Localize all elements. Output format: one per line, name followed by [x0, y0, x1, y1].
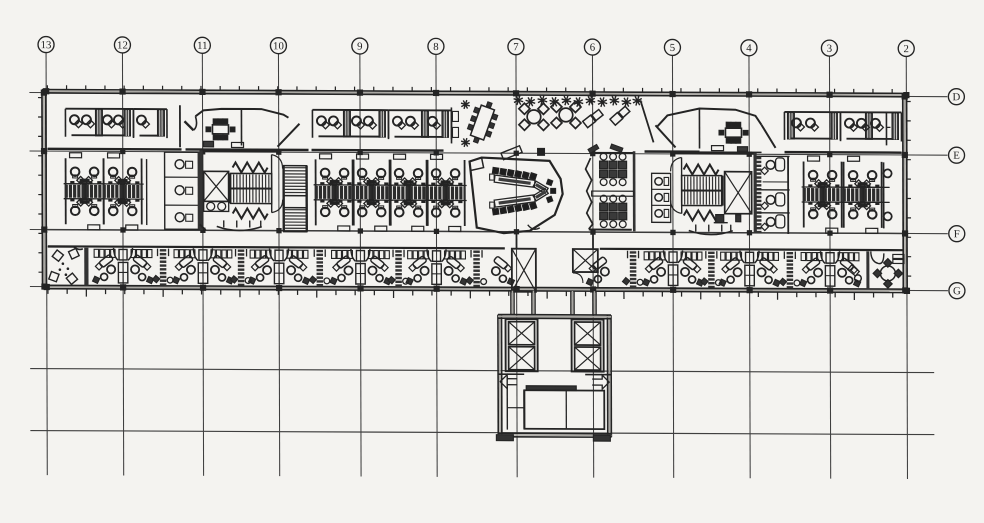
svg-text:E: E	[953, 150, 960, 162]
svg-text:F: F	[954, 228, 960, 240]
svg-text:5: 5	[670, 42, 675, 54]
svg-text:G: G	[953, 285, 961, 297]
svg-text:7: 7	[513, 41, 519, 53]
svg-text:4: 4	[746, 42, 752, 54]
svg-text:13: 13	[41, 39, 52, 51]
svg-text:2: 2	[904, 43, 909, 55]
svg-text:6: 6	[590, 42, 596, 54]
svg-text:9: 9	[357, 41, 362, 53]
svg-text:8: 8	[433, 41, 438, 53]
svg-text:11: 11	[197, 40, 207, 52]
svg-text:10: 10	[273, 40, 284, 52]
svg-text:D: D	[952, 91, 960, 103]
svg-text:3: 3	[827, 43, 832, 55]
svg-text:12: 12	[117, 40, 128, 52]
